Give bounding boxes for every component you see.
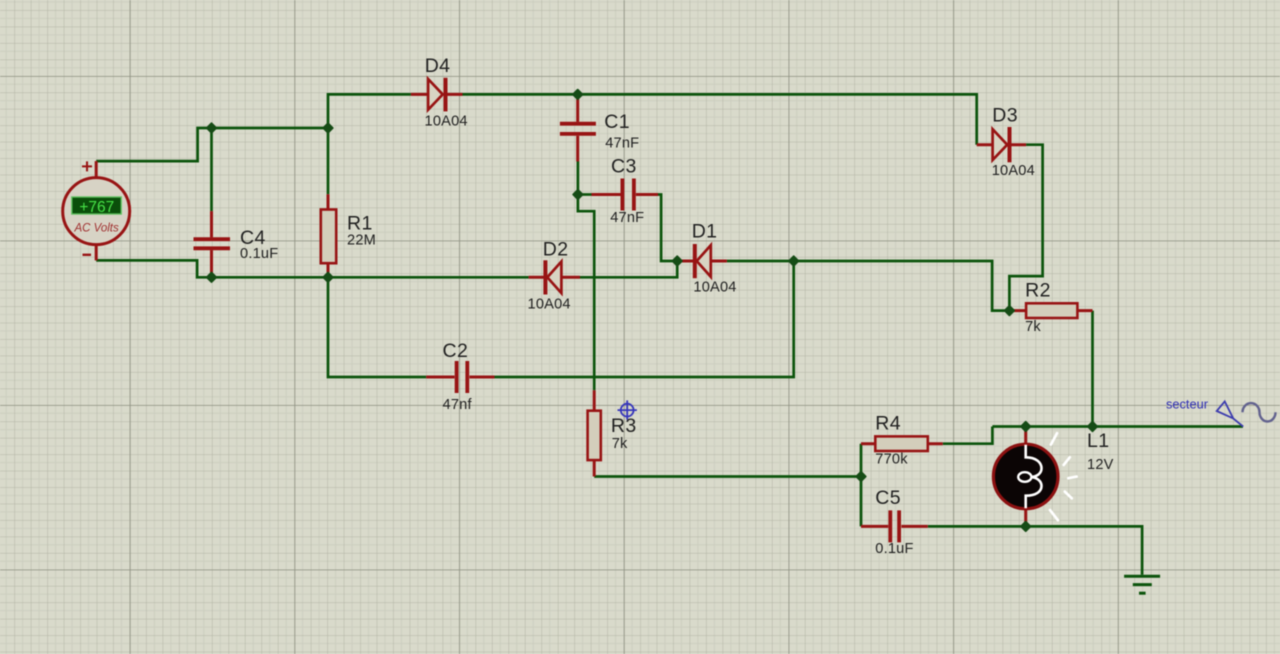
ac sine symbol (1243, 403, 1276, 421)
svg-text:D1: D1 (692, 221, 718, 243)
svg-text:0.1uF: 0.1uF (240, 246, 278, 262)
svg-text:C2: C2 (443, 340, 469, 362)
wire D3 output down to R2 node (1009, 145, 1042, 311)
svg-text:0.1uF: 0.1uF (875, 541, 913, 557)
lamp L1 (993, 444, 1058, 509)
svg-text:secteur: secteur (1166, 397, 1209, 412)
junction node C1 top (573, 90, 582, 99)
D3 pins (977, 143, 1026, 146)
C3 pins (592, 193, 659, 196)
junction node R1 top (323, 123, 332, 132)
diode D2 (545, 260, 561, 294)
voltmeter body (63, 178, 130, 245)
capacitor C2 plates (457, 361, 468, 393)
junction node C4 top (207, 123, 216, 132)
svg-text:22M: 22M (347, 233, 376, 249)
svg-text:47nF: 47nF (610, 210, 644, 226)
voltmeter display (72, 197, 121, 214)
junction node lamp top (1021, 422, 1030, 431)
diode D3 (993, 127, 1010, 162)
resistor R1 (321, 210, 336, 264)
wire C1 bottom green segment (577, 162, 580, 195)
svg-text:770k: 770k (875, 452, 908, 468)
svg-text:C5: C5 (875, 487, 901, 509)
svg-text:C3: C3 (611, 155, 637, 177)
capacitor C1 plates (560, 124, 596, 134)
wire lamp top row to secteur terminal (992, 425, 1243, 428)
voltmeter plus stub (95, 161, 98, 177)
wire from voltmeter minus along bottom row to D2 (96, 260, 528, 277)
terminal secteur (1217, 401, 1244, 426)
junction node D1 left (673, 256, 682, 265)
wire C2 right up to D1 right node (495, 261, 794, 377)
wire C5 right through lamp bottom to ground (928, 526, 1142, 574)
ground (1124, 576, 1160, 593)
D1 pins (677, 260, 727, 263)
wire R3 bottom to R4 node (594, 475, 861, 478)
diode D1 (695, 244, 711, 278)
diode D4 (428, 78, 445, 112)
voltmeter plus sign (82, 161, 92, 171)
junction node R4/C5 left (856, 472, 865, 481)
D4 pins (411, 93, 463, 96)
capacitor C4 plates (194, 239, 231, 248)
svg-text:D4: D4 (425, 55, 451, 77)
D2 pins (529, 276, 580, 279)
wire from bottom row down to C2 (328, 277, 426, 377)
wire R1 top green segment (327, 128, 330, 194)
voltmeter minus sign (83, 254, 92, 256)
wire C3 left stub (578, 193, 592, 196)
svg-text:R1: R1 (347, 213, 373, 235)
svg-text:10A04: 10A04 (992, 163, 1035, 179)
L1 pins (1024, 427, 1027, 527)
svg-text:7k: 7k (612, 436, 628, 452)
wire R4 node down to C5 (860, 444, 863, 527)
R2 pins (1009, 309, 1092, 312)
svg-text:L1: L1 (1087, 430, 1110, 452)
capacitor C3 plates (622, 179, 634, 211)
wire D1 right to R2 node (727, 261, 1010, 311)
junction node R2 left (1005, 306, 1014, 315)
C2 pins (426, 376, 494, 379)
C1 pins (576, 94, 579, 161)
svg-text:R4: R4 (875, 413, 901, 435)
wire from voltmeter plus up to top-left node and D4 (96, 94, 411, 161)
svg-text:D3: D3 (992, 105, 1018, 127)
junction node D1 right (789, 256, 798, 265)
R4 pins (861, 442, 943, 445)
resistor R4 (875, 436, 928, 451)
wire C4 top green segment (210, 128, 213, 211)
wire C3 right to D1 left node (658, 195, 677, 262)
wire R2 output down to lamp row (1091, 311, 1094, 427)
svg-text:D2: D2 (543, 238, 569, 260)
junction node C4 bottom (207, 273, 216, 282)
wire top net from D4 to D3 (463, 94, 977, 144)
resistor R2 (1026, 303, 1077, 318)
junction node C1 bottom / C3 (573, 190, 582, 199)
wire jog from C1 node down to R3 (578, 195, 594, 391)
svg-text:R3: R3 (611, 415, 637, 437)
svg-text:47nf: 47nf (443, 397, 473, 413)
junction node R1 bottom (323, 273, 332, 282)
svg-text:R2: R2 (1025, 280, 1051, 302)
origin marker near R3 (618, 400, 637, 419)
C5 pins (861, 525, 928, 528)
svg-text:47nF: 47nF (605, 135, 639, 151)
svg-text:10A04: 10A04 (693, 279, 736, 295)
voltmeter minus stub (95, 245, 98, 261)
resistor R3 (588, 411, 601, 460)
svg-text:12V: 12V (1087, 457, 1114, 473)
R1 pins (327, 194, 330, 276)
wire D2 right lead up to D1 node (580, 261, 677, 277)
svg-text:7k: 7k (1025, 319, 1041, 335)
wire R4 right up to lamp row (943, 427, 993, 444)
junction node lamp bottom (1021, 522, 1030, 531)
capacitor C5 plates (890, 510, 899, 542)
svg-text:10A04: 10A04 (528, 297, 571, 313)
svg-text:AC Volts: AC Volts (73, 223, 119, 235)
svg-text:C1: C1 (604, 111, 630, 133)
R3 pins (593, 390, 596, 476)
svg-text:+767: +767 (79, 199, 114, 216)
C4 pins (210, 211, 213, 274)
svg-text:10A04: 10A04 (425, 114, 468, 130)
junction node R2 bottom (1088, 422, 1097, 431)
lamp light rays (1050, 433, 1077, 520)
